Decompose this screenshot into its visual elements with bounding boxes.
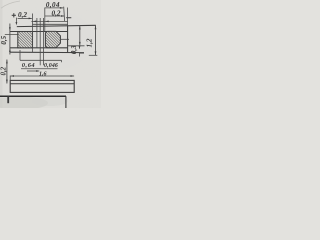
bottom border vertical line — [65, 96, 67, 108]
track band top line — [10, 31, 68, 33]
dimension line for 0,04 — [45, 7, 64, 9]
arrow on strip line at gap edge — [33, 21, 37, 23]
outline right edge — [67, 26, 69, 52]
extension line x=64 — [63, 7, 66, 22]
extension line x=20 — [19, 50, 21, 60]
dimension 0,3 outside arrows — [79, 46, 84, 57]
svg-text:0,64: 0,64 — [22, 62, 35, 69]
tape strip upper line — [31, 20, 67, 22]
dimension line for 1,6 with right arrow — [27, 70, 40, 72]
bar length dimension line with arrows — [10, 75, 74, 77]
dimension line for 0,2 bottom-left with arrows — [6, 60, 8, 84]
short dash segment right of 0,2 line — [66, 17, 71, 19]
gap edge line x=32.5 — [32, 14, 34, 53]
underline below labels — [21, 68, 58, 70]
hatched core block right (chamfered) — [45, 31, 60, 47]
dimension line for 0,5 with arrows — [9, 24, 11, 55]
dimension line 1,2 with arrows — [95, 25, 97, 55]
tape cross-section bar outline — [10, 80, 74, 92]
svg-text:0,3: 0,3 — [70, 45, 78, 54]
label band top line — [20, 59, 62, 61]
extension line for 0,5 — [5, 34, 18, 36]
dimension line for 0,2 middle — [45, 15, 65, 17]
reference line y=55.3 right — [89, 54, 98, 56]
svg-text:1,2: 1,2 — [86, 38, 94, 47]
mid line from right block — [60, 38, 69, 40]
outline bottom edge — [10, 51, 84, 53]
gap edge line x=36.9 — [36, 18, 38, 48]
label band top line end hook — [61, 60, 63, 62]
bar left edge extension up — [9, 76, 11, 81]
gap edge line x=40.2 — [39, 18, 41, 65]
reference line y=45.8 right — [68, 45, 85, 47]
extension line x=67.6 — [67, 8, 69, 47]
thick tick below border — [7, 96, 9, 103]
dimension line for 0,2 top-left — [18, 18, 33, 20]
gap edge line x=43.4 — [42, 18, 44, 65]
arrow on strip line at core edge — [45, 21, 49, 23]
hatched core block left — [18, 32, 33, 48]
faint arc stray mark top-left — [1, 1, 20, 8]
bottom border horizontal line — [0, 95, 66, 97]
plus sign marker — [12, 13, 16, 17]
svg-text:0,046: 0,046 — [44, 63, 58, 69]
tape strip lower line — [33, 23, 68, 25]
svg-text:1,6: 1,6 — [39, 71, 47, 77]
track band bottom line — [10, 47, 68, 49]
extension line x=44.8 — [44, 8, 46, 32]
svg-text:0,5: 0,5 — [0, 35, 8, 44]
svg-text:0,2: 0,2 — [0, 66, 7, 75]
down arrow at top-left corner of outline — [16, 18, 18, 26]
outline top edge — [17, 25, 96, 26]
svg-text:0,2: 0,2 — [18, 11, 27, 19]
bar inner layer line — [10, 83, 74, 85]
vertical dimension line x=79.8 with arrows — [79, 26, 81, 46]
